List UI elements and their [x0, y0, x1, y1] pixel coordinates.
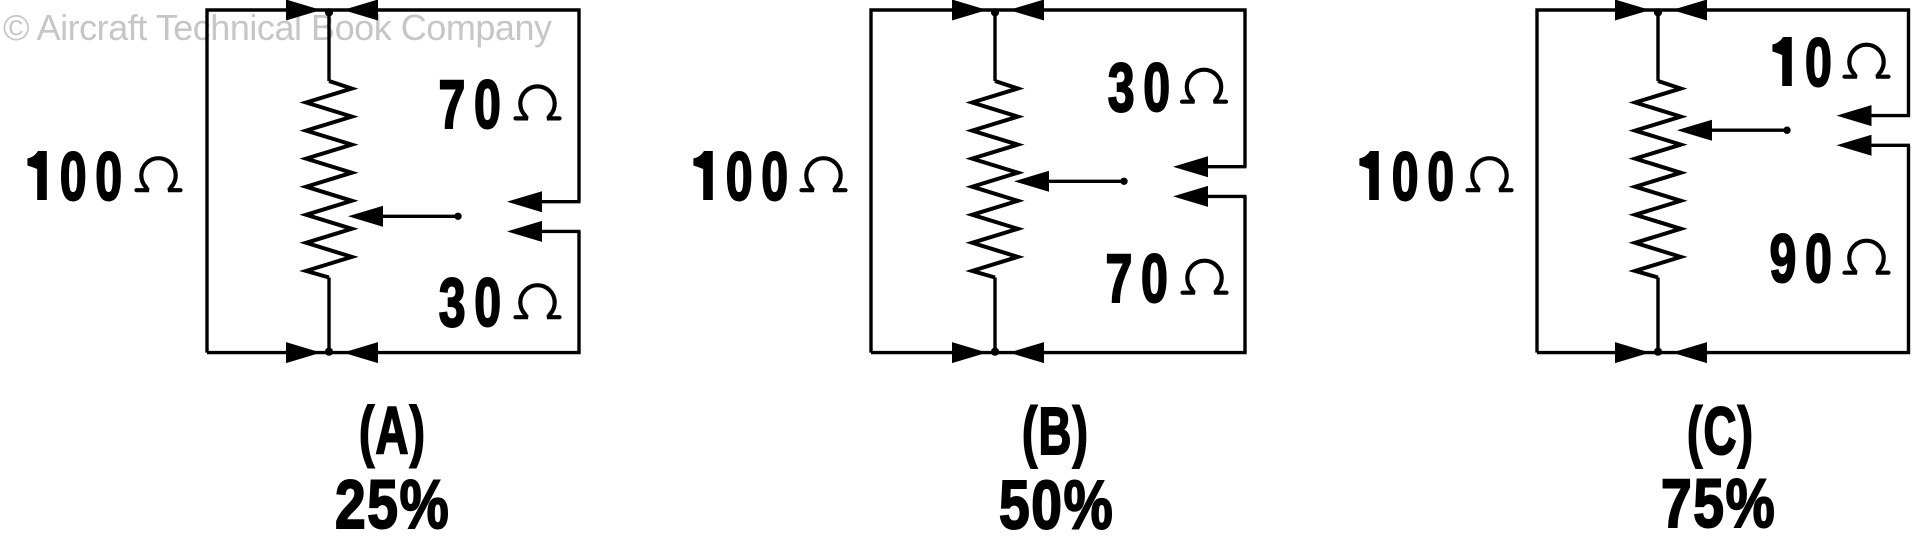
- svg-text:00: 00: [60, 138, 131, 216]
- svg-text:0: 0: [1805, 24, 1841, 102]
- svg-text:00: 00: [1392, 138, 1463, 216]
- svg-text:(A): (A): [359, 394, 426, 469]
- svg-text:(C): (C): [1687, 395, 1754, 470]
- svg-text:70: 70: [1106, 240, 1177, 318]
- svg-text:70: 70: [439, 66, 510, 144]
- svg-text:75%: 75%: [1661, 465, 1776, 542]
- svg-text:00: 00: [726, 138, 797, 216]
- svg-text:50%: 50%: [999, 467, 1114, 544]
- svg-text:30: 30: [1108, 49, 1179, 127]
- svg-text:25%: 25%: [335, 466, 450, 543]
- svg-text:(B): (B): [1022, 395, 1089, 470]
- svg-text:30: 30: [439, 264, 510, 342]
- svg-text:© Aircraft Technical Book Comp: © Aircraft Technical Book Company: [3, 7, 552, 48]
- svg-text:90: 90: [1770, 220, 1841, 298]
